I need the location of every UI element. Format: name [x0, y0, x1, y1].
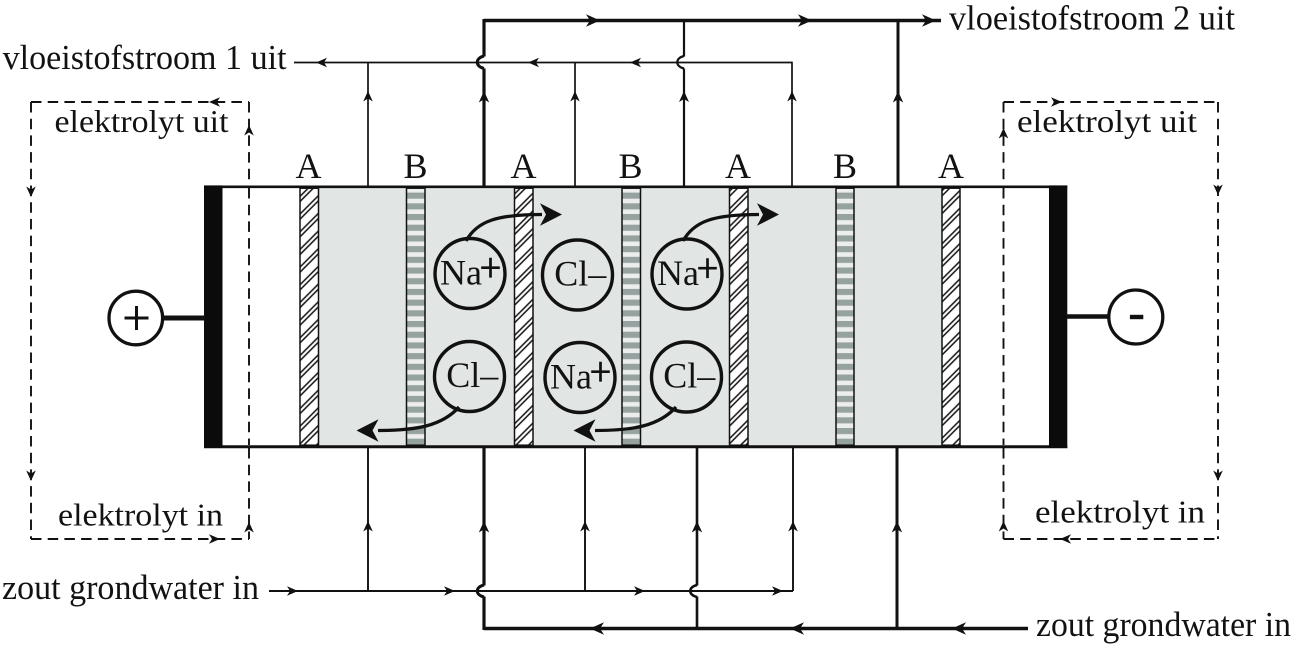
svg-text:Na: Na [657, 253, 699, 293]
left loop arrow down lower [26, 471, 36, 482]
membrane B3 [836, 188, 854, 445]
feed line bottom left (thin) [269, 590, 793, 592]
arrow up feed1 [363, 521, 373, 532]
right electrode (cathode bar) [1049, 185, 1067, 448]
ion circle Na+ row2 compartment3 [545, 343, 615, 413]
membrane A4 [942, 188, 960, 445]
ion circle Na+ row1 compartment4 [652, 239, 722, 309]
membrane A1 [300, 188, 319, 445]
svg-text:elektrolyt uit: elektrolyt uit [1017, 103, 1197, 139]
svg-text:elektrolyt in: elektrolyt in [58, 497, 223, 533]
cell top border [204, 185, 1067, 188]
riser compartment3 top [574, 63, 576, 187]
downcomer compartment1 [367, 447, 369, 591]
svg-text:elektrolyt in: elektrolyt in [1035, 494, 1205, 530]
electrolyte loop right dashed [1004, 102, 1219, 539]
cell bottom border [204, 445, 1067, 448]
arrow right f4 [772, 586, 783, 596]
svg-text:A: A [938, 146, 964, 186]
svg-text:A: A [511, 146, 537, 186]
svg-text:Cl–: Cl– [446, 355, 499, 395]
arrow right s2 end [922, 14, 936, 26]
svg-text:A: A [725, 146, 751, 186]
riser compartment4 top with hop [677, 19, 689, 186]
stream2 outlet header line [484, 19, 941, 22]
riser compartment6 top [893, 19, 903, 186]
arrow left g1 [590, 622, 604, 634]
riser compartment5 top [791, 62, 793, 186]
svg-text:vloeistofstroom 1 uit: vloeistofstroom 1 uit [3, 38, 287, 77]
svg-text:Na: Na [550, 357, 592, 397]
arrow up riser5 [787, 91, 797, 102]
feed riser compartment4 with hop [690, 447, 702, 630]
anode connector wire [162, 316, 205, 321]
feed line bottom right (thick) [484, 627, 1028, 630]
left loop arrow down upper [26, 187, 36, 198]
arrow right s2 b [798, 14, 812, 26]
electrolyte loop left dashed [31, 102, 249, 539]
arrow left mid1 [528, 58, 539, 68]
riser compartment2 top with hop [477, 19, 489, 186]
anode terminal circle + [109, 291, 163, 345]
right loop arrow down lower [1213, 471, 1223, 482]
feed riser compartment2 with hop [477, 447, 489, 630]
membrane A3 [730, 188, 749, 445]
Na+ migration arrow through A2 [466, 203, 562, 241]
arrow right f1 [287, 586, 298, 596]
right loop arrow left on bottom run [1060, 534, 1071, 544]
arrow left near label 1 [316, 58, 327, 68]
left loop arrow left on top run [209, 97, 220, 107]
grey interior region [319, 188, 943, 446]
svg-text:zout grondwater in: zout grondwater in [1036, 605, 1291, 644]
cell body background [204, 186, 1067, 447]
svg-text:B: B [403, 146, 427, 186]
arrow up feed5 [788, 521, 798, 532]
cathode connector wire [1066, 314, 1109, 319]
arrow right s2 a [586, 14, 600, 26]
downcomer compartment3 [584, 447, 586, 591]
left electrode (anode bar) [204, 185, 223, 448]
arrow right f3 [634, 586, 645, 596]
left loop arrow up at cell outlet [244, 125, 254, 136]
cathode terminal circle - [1109, 290, 1163, 344]
ion circle Cl- row2 compartment4 [652, 342, 722, 412]
right loop arrow down upper [1213, 185, 1223, 196]
ion circle Cl- row2 compartment2 [435, 342, 505, 412]
Na+ migration arrow through A3 [683, 203, 779, 241]
svg-text:B: B [833, 146, 857, 186]
feed riser compartment6 [892, 447, 902, 629]
arrow left g3 [952, 622, 966, 634]
arrow left g2 [790, 622, 804, 634]
membrane B2 [622, 188, 641, 445]
membrane A2 [515, 188, 534, 445]
arrow up riser3 [570, 91, 580, 102]
svg-text:elektrolyt uit: elektrolyt uit [55, 103, 229, 139]
svg-text:Cl–: Cl– [554, 254, 607, 294]
right loop arrow up at cell outlet [999, 128, 1009, 139]
membrane B1 [407, 188, 426, 445]
arrow up riser1 [363, 91, 373, 102]
ion circle Cl- row1 compartment3 [543, 240, 613, 310]
right loop arrow right on top run [1051, 97, 1062, 107]
svg-text:Na: Na [440, 253, 482, 293]
downcomer compartment5 [792, 447, 794, 591]
svg-text:vloeistofstroom 2 uit: vloeistofstroom 2 uit [949, 0, 1235, 38]
left loop arrow up at cell inlet [244, 522, 254, 533]
svg-text:A: A [296, 146, 322, 186]
riser compartment1 top [367, 63, 369, 187]
left loop arrow right on bottom run [209, 534, 220, 544]
Cl- migration arrow through B1 [357, 407, 460, 442]
arrow right f2 [444, 586, 455, 596]
Cl- migration arrow through B2 [574, 407, 677, 442]
stream1 outlet header line [294, 62, 792, 64]
right loop arrow up at cell inlet [999, 521, 1009, 532]
svg-text:B: B [618, 146, 642, 186]
arrow up feed3 [580, 521, 590, 532]
svg-text:Cl–: Cl– [663, 356, 716, 396]
ion circle Na+ row1 compartment2 [435, 239, 505, 309]
arrow left mid2 [630, 58, 641, 68]
svg-text:zout grondwater in: zout grondwater in [2, 568, 259, 607]
